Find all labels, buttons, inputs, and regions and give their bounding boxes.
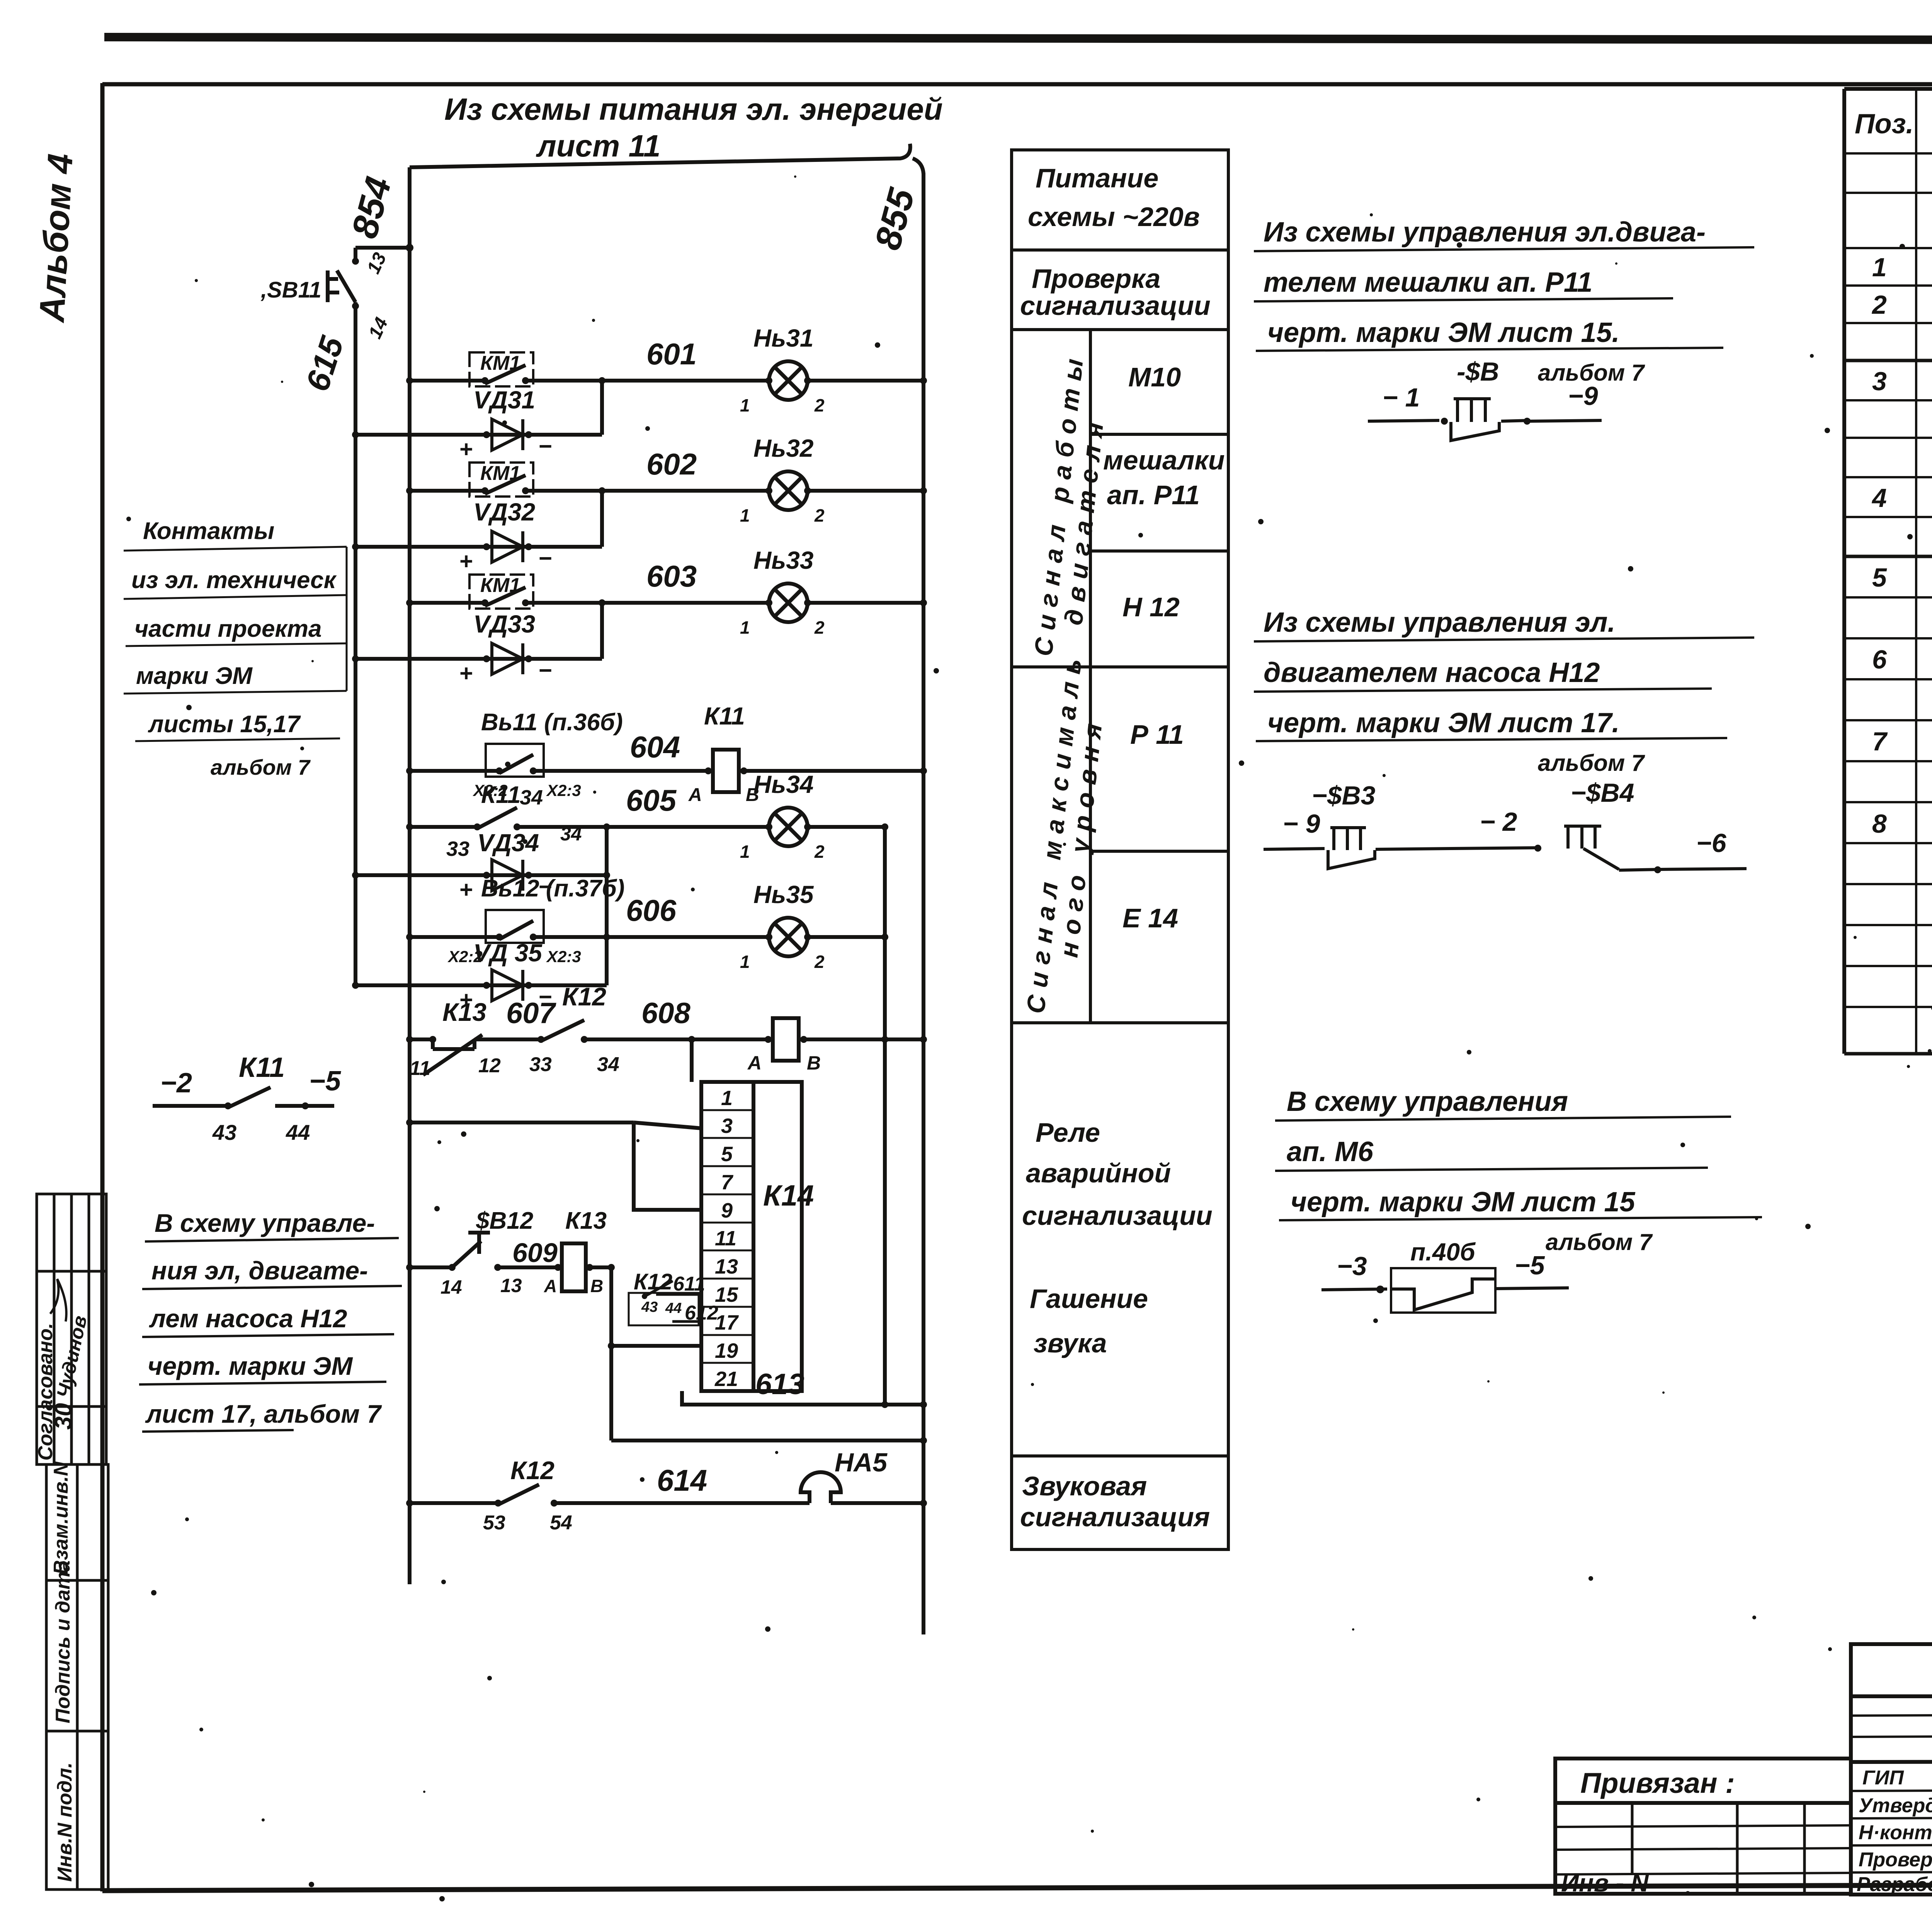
svg-text:5: 5 [1872,563,1887,592]
svg-text:Hь32: Hь32 [753,434,813,462]
svg-text:В схему управления: В схему управления [1287,1086,1568,1117]
svg-text:603: 603 [646,559,697,593]
svg-text:13: 13 [715,1255,738,1278]
svg-text:телем мешалки ап. Р11: телем мешалки ап. Р11 [1264,267,1592,298]
svg-text:2: 2 [814,842,825,862]
svg-text:Hь34: Hь34 [753,770,813,798]
svg-text:К11: К11 [704,702,745,730]
svg-text:мешалки: мешалки [1103,445,1225,475]
svg-text:Инв.N подл.: Инв.N подл. [54,1762,76,1882]
svg-text:611: 611 [673,1273,705,1295]
svg-text:612: 612 [685,1302,718,1324]
svg-text:Н 12: Н 12 [1122,592,1180,622]
svg-text:9: 9 [721,1199,733,1222]
svg-text:1: 1 [740,617,750,638]
svg-text:−: − [538,433,552,459]
svg-text:ния эл, двигате-: ния эл, двигате- [151,1256,368,1285]
svg-text:4: 4 [1871,483,1887,513]
svg-text:части проекта: части проекта [134,616,321,642]
svg-text:43: 43 [641,1299,658,1315]
svg-text:$B12: $B12 [476,1207,533,1234]
svg-text:аварийной: аварийной [1026,1158,1171,1188]
svg-text:8: 8 [1872,809,1887,838]
svg-text:−$B3: −$B3 [1312,781,1376,810]
svg-text:Bь12 (п.37б): Bь12 (п.37б) [481,875,625,902]
svg-text:43: 43 [212,1120,236,1145]
svg-text:Питание: Питание [1036,163,1158,193]
svg-text:B: B [807,1052,821,1074]
svg-text:Проверка: Проверка [1032,264,1160,294]
svg-text:− 2: − 2 [1480,807,1517,837]
svg-text:Проверил: Проверил [1859,1849,1932,1871]
svg-text:лем насоса Н12: лем насоса Н12 [149,1304,347,1333]
svg-text:−5: −5 [1515,1251,1545,1280]
svg-text:21: 21 [714,1367,738,1391]
svg-text:53: 53 [483,1512,505,1534]
svg-text:Контакты: Контакты [143,518,274,544]
svg-text:15: 15 [715,1283,738,1306]
svg-text:лист 17, альбом 7: лист 17, альбом 7 [145,1400,382,1428]
svg-text:6: 6 [1872,645,1887,674]
svg-text:листы 15,17: листы 15,17 [148,711,301,738]
svg-text:608: 608 [641,997,691,1030]
svg-text:2: 2 [814,617,825,638]
svg-text:7: 7 [1872,727,1888,756]
svg-text:Bь11 (п.36б): Bь11 (п.36б) [481,709,623,736]
svg-text:А: А [747,1052,762,1074]
svg-text:2: 2 [814,395,825,415]
svg-text:2: 2 [1871,290,1887,320]
svg-text:−: − [538,657,552,683]
svg-text:А: А [544,1276,557,1296]
svg-text:602: 602 [646,447,697,481]
svg-text:Инв - N: Инв - N [1561,1869,1649,1897]
svg-text:1: 1 [740,842,750,862]
svg-text:Е 14: Е 14 [1122,903,1178,933]
svg-text:11: 11 [410,1057,430,1080]
svg-text:605: 605 [626,783,677,817]
svg-text:Реле: Реле [1036,1117,1100,1148]
svg-text:альбом 7: альбом 7 [1546,1229,1653,1255]
svg-text:3: 3 [721,1114,733,1138]
svg-text:Поз.: Поз. [1855,109,1914,139]
svg-text:2: 2 [814,952,825,972]
svg-text:Hь35: Hь35 [753,881,814,908]
svg-text:К12: К12 [510,1456,554,1485]
svg-text:+: + [459,660,473,686]
svg-text:звука: звука [1034,1328,1107,1358]
svg-text:+: + [459,548,473,574]
svg-text:17: 17 [715,1311,739,1334]
svg-text:Hь33: Hь33 [753,546,813,574]
svg-text:HA5: HA5 [835,1448,888,1477]
svg-text:7: 7 [721,1171,734,1194]
svg-text:Н·контр ·: Н·контр · [1859,1821,1932,1844]
svg-text:Из схемы управления эл.двига: Из схемы управления эл.двига- [1264,217,1706,248]
svg-text:А: А [688,785,702,805]
svg-text:сигнализации: сигнализации [1022,1201,1213,1231]
svg-text:14: 14 [440,1276,462,1298]
svg-text:К13: К13 [565,1207,607,1234]
svg-text:606: 606 [626,893,677,927]
svg-text:1: 1 [740,395,750,415]
svg-text:X2:3: X2:3 [546,947,581,966]
svg-text:44: 44 [286,1120,310,1145]
svg-text:5: 5 [721,1143,733,1166]
svg-text:Hь31: Hь31 [753,324,813,352]
svg-text:ап. М6: ап. М6 [1287,1136,1374,1167]
svg-text:−3: −3 [1337,1252,1367,1281]
svg-text:+: + [459,436,473,462]
svg-text:33: 33 [446,837,469,861]
svg-text:44: 44 [665,1300,682,1316]
svg-text:черт. марки ЭМ лист 15.: черт. марки ЭМ лист 15. [1267,317,1620,348]
svg-text:Привязан :: Привязан : [1580,1767,1735,1799]
svg-text:3: 3 [1872,367,1887,396]
svg-text:19: 19 [715,1339,738,1362]
svg-text:п.40б: п.40б [1410,1238,1476,1266]
svg-text:схемы ~220в: схемы ~220в [1028,202,1200,232]
svg-text:54: 54 [550,1512,572,1534]
svg-text:604: 604 [630,730,680,764]
svg-text:−: − [538,545,552,571]
svg-text:Р 11: Р 11 [1130,719,1184,750]
svg-text:X2:3: X2:3 [546,781,581,799]
svg-text:Звуковая: Звуковая [1022,1471,1147,1501]
svg-text:Взам.инв.N: Взам.инв.N [50,1461,72,1575]
svg-text:К11: К11 [239,1052,285,1083]
svg-text:сигнализация: сигнализация [1020,1502,1210,1532]
svg-text:−2: −2 [160,1068,192,1099]
svg-text:33: 33 [529,1053,552,1076]
svg-text:11: 11 [715,1227,736,1250]
svg-text:13: 13 [500,1275,522,1296]
svg-text:-$B: -$B [1457,357,1499,386]
svg-text:из эл. техническ: из эл. техническ [131,567,337,594]
svg-text:VД32: VД32 [473,498,535,526]
svg-text:альбом 7: альбом 7 [211,755,311,779]
svg-text:+: + [459,877,473,903]
svg-text:−5: −5 [309,1066,341,1097]
svg-text:614: 614 [657,1463,707,1497]
svg-text:34: 34 [520,786,543,809]
svg-text:1: 1 [740,952,750,972]
svg-text:VД34: VД34 [477,829,539,857]
svg-text:М10: М10 [1128,362,1181,392]
svg-text:30: 30 [50,1403,77,1430]
svg-text:К12: К12 [562,982,606,1011]
svg-text:В схему управле-: В схему управле- [155,1209,375,1237]
svg-text:КМ1: КМ1 [480,462,520,485]
svg-text:черт. марки ЭМ: черт. марки ЭМ [148,1352,353,1380]
svg-text:613: 613 [755,1368,804,1401]
svg-text:VД33: VД33 [473,610,535,638]
svg-text:601: 601 [646,337,697,371]
svg-text:,SB11: ,SB11 [260,277,321,303]
svg-text:К14: К14 [763,1179,814,1212]
svg-text:сигнализации: сигнализации [1020,291,1211,321]
svg-text:Гашение: Гашение [1030,1284,1148,1314]
svg-text:лист 11: лист 11 [536,129,661,163]
svg-text:−9: −9 [1568,381,1598,411]
svg-text:−$B4: −$B4 [1571,778,1634,808]
svg-text:К13: К13 [442,998,486,1026]
svg-text:VД 35: VД 35 [473,939,543,967]
svg-text:Утвердил: Утвердил [1859,1794,1932,1817]
svg-text:607: 607 [506,997,557,1030]
svg-text:B: B [590,1276,603,1296]
svg-text:КМ1: КМ1 [480,352,520,374]
svg-text:черт. марки ЭМ лист 17.: черт. марки ЭМ лист 17. [1267,707,1620,738]
svg-text:VД31: VД31 [473,386,535,414]
svg-text:34: 34 [560,823,582,845]
svg-text:К11: К11 [481,782,520,808]
svg-text:− 9: − 9 [1283,809,1320,838]
svg-text:ап. Р11: ап. Р11 [1107,480,1200,510]
svg-text:609: 609 [512,1238,558,1268]
svg-text:черт. марки ЭМ лист 15: черт. марки ЭМ лист 15 [1291,1187,1635,1218]
svg-text:альбом 7: альбом 7 [1538,750,1645,776]
svg-text:марки ЭМ: марки ЭМ [136,663,253,689]
svg-text:Разработал: Разработал [1857,1873,1932,1896]
svg-text:1: 1 [1872,253,1887,282]
svg-text:Из схемы питания эл. энергие: Из схемы питания эл. энергией [444,92,943,126]
svg-text:К12: К12 [634,1269,672,1294]
svg-text:2: 2 [814,505,825,526]
svg-text:− 1: − 1 [1383,383,1420,412]
svg-text:ГИП: ГИП [1862,1767,1904,1789]
svg-text:Подпись и дата: Подпись и дата [52,1560,74,1723]
svg-text:1: 1 [740,505,750,526]
svg-text:12: 12 [478,1054,501,1077]
svg-text:двигателем насоса Н12: двигателем насоса Н12 [1264,657,1600,688]
svg-text:−6: −6 [1696,828,1727,858]
svg-text:Из схемы управления эл.: Из схемы управления эл. [1264,607,1615,638]
svg-text:КМ1: КМ1 [480,574,520,597]
svg-text:1: 1 [721,1087,733,1110]
svg-text:34: 34 [597,1053,619,1076]
